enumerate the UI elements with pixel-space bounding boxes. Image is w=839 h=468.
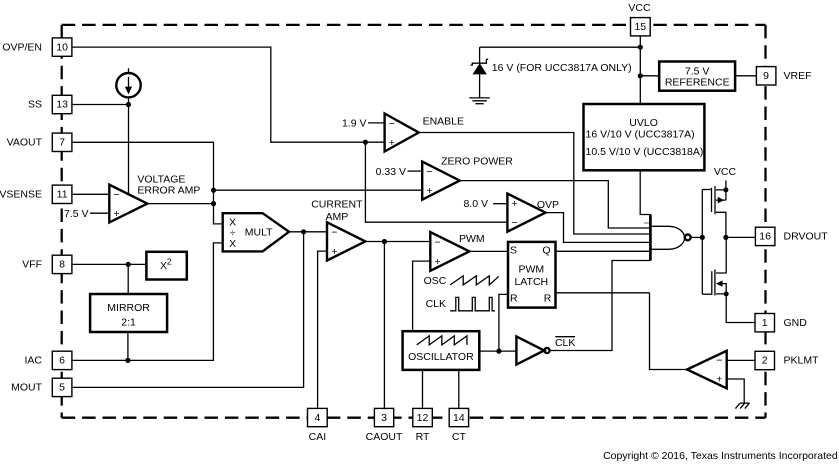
pin 11 VSENSE [0, 185, 72, 203]
svg-text:VCC: VCC [628, 2, 651, 14]
gate NAND driver logic [650, 215, 690, 261]
svg-text:÷: ÷ [230, 227, 236, 239]
wire 1.9V to ENABLE - input [368, 122, 385, 124]
svg-text:−: − [512, 217, 518, 229]
svg-text:+: + [716, 373, 722, 385]
current source I_SS [116, 68, 140, 97]
svg-text:−: − [426, 166, 432, 178]
svg-text:Copyright © 2016, Texas Instru: Copyright © 2016, Texas Instruments Inco… [603, 450, 838, 462]
svg-text:7: 7 [59, 137, 65, 149]
pin 15 VCC top [628, 2, 651, 36]
multiplier MULT [223, 213, 289, 251]
svg-text:DRVOUT: DRVOUT [784, 231, 829, 243]
svg-text:CURRENT: CURRENT [311, 199, 363, 211]
svg-text:R: R [510, 292, 518, 304]
svg-text:PKLMT: PKLMT [784, 355, 820, 367]
svg-text:5: 5 [59, 382, 65, 394]
pin 13 SS [28, 95, 72, 113]
wire error amp output [147, 203, 213, 205]
op-amp CURRENT AMP [311, 199, 365, 261]
junction VAOUT/error-amp output node [211, 201, 216, 206]
wire PKLMT output to latch R [650, 293, 688, 370]
svg-text:+: + [512, 198, 518, 210]
svg-text:CT: CT [452, 431, 467, 443]
buffer CLK inverter [516, 336, 549, 364]
wire oscillator clock output [479, 350, 516, 352]
junction MOUT node [301, 229, 306, 234]
wire SS pin13 [72, 104, 129, 106]
wire CAOUT to pin3 [383, 242, 385, 409]
wire reference to VREF pin9 [735, 75, 756, 77]
svg-text:9: 9 [763, 70, 769, 82]
chassis ground symbol [735, 403, 749, 409]
svg-text:IAC: IAC [24, 355, 42, 367]
svg-text:VFF: VFF [22, 259, 42, 271]
svg-text:16 V (FOR UCC3817A ONLY): 16 V (FOR UCC3817A ONLY) [492, 62, 632, 74]
block OSCILLATOR with ramp glyph [403, 331, 480, 370]
junction VCC/reference node [638, 73, 643, 78]
pin 3 CAOUT [366, 408, 403, 443]
wire oscillator ramp to PWM + input [413, 261, 431, 331]
wire source to GND pin1 [726, 294, 755, 323]
svg-text:RT: RT [416, 431, 430, 443]
svg-text:0.33 V: 0.33 V [376, 166, 406, 178]
wire RT pin12 to oscillator [422, 370, 424, 409]
svg-text:ENABLE: ENABLE [423, 116, 464, 128]
junction SS node [126, 102, 131, 107]
pin 9 VREF [756, 67, 811, 85]
svg-text:−: − [113, 189, 119, 201]
block MIRROR 2:1 [90, 294, 167, 332]
wire VCC pin15 rail [639, 36, 641, 104]
wire IAC pin6 to MULT X bottom input [72, 243, 223, 361]
svg-text:MOUT: MOUT [11, 382, 42, 394]
svg-text:11: 11 [57, 189, 68, 201]
svg-text:−: − [716, 354, 722, 366]
svg-text:CAOUT: CAOUT [366, 431, 403, 443]
svg-text:AMP: AMP [326, 211, 349, 223]
wire to MULT X top input [214, 204, 223, 224]
junction VFF node [126, 262, 131, 267]
junction IAC node [125, 358, 130, 363]
wire 0.33V to ZERO POWER - input [408, 170, 423, 172]
svg-text:−: − [435, 236, 441, 248]
wire ZERO POWER output to gate [460, 181, 651, 228]
wire NAND output to totem pole gates [691, 236, 703, 238]
comparator ZERO POWER [422, 155, 513, 199]
wire MOUT pin5 to multiplier output [72, 232, 304, 388]
svg-text:+: + [426, 185, 432, 197]
wire CLK-bar to gate bottom input [550, 261, 651, 351]
node junction on OVP/EN line [363, 140, 368, 145]
label CLK-bar [555, 337, 575, 350]
block UVLO [584, 104, 705, 170]
comparator ENABLE [385, 114, 464, 152]
block X squared [146, 252, 186, 280]
svg-text:VSENSE: VSENSE [0, 189, 42, 201]
svg-text:+: + [435, 256, 441, 268]
wire node to ZERO POWER + input [214, 189, 423, 191]
wire VSENSE pin11 to error amp - input [72, 193, 109, 195]
svg-text:16: 16 [759, 231, 771, 243]
svg-text:ZERO POWER: ZERO POWER [441, 155, 513, 167]
latch PWM LATCH [508, 242, 556, 308]
svg-text:X: X [229, 238, 236, 250]
wire VFF to MIRROR [127, 264, 129, 294]
svg-text:+: + [113, 208, 119, 220]
svg-text:2:1: 2:1 [121, 317, 136, 329]
svg-text:7.5 V: 7.5 V [64, 208, 89, 220]
comparator PWM [430, 232, 484, 271]
wire latch Q output to gate [556, 250, 651, 252]
svg-text:SS: SS [28, 99, 42, 111]
junction DRVOUT node [723, 235, 728, 240]
svg-text:12: 12 [417, 412, 429, 424]
comparator PKLMT peak limit [687, 351, 727, 389]
junction CAOUT node [382, 239, 387, 244]
svg-text:OSCILLATOR: OSCILLATOR [408, 351, 474, 363]
wire CLK to latch R left input [499, 294, 508, 351]
wire + input to ground [727, 379, 745, 403]
label OSC with ramp waveform [424, 275, 499, 287]
svg-text:4: 4 [314, 412, 320, 424]
wire VCC to 7.5V reference [640, 75, 659, 77]
wire MULT output to current amp - input [289, 231, 327, 233]
svg-text:1.9 V: 1.9 V [342, 118, 367, 130]
wire current amp output to PWM - input [365, 241, 430, 243]
wire DRVOUT to pin16 [726, 236, 756, 238]
pin 8 VFF [22, 255, 72, 273]
junction VCC/zener node [638, 45, 643, 50]
svg-text:OSC: OSC [424, 275, 447, 287]
svg-text:8.0 V: 8.0 V [463, 198, 488, 210]
svg-text:1: 1 [762, 317, 768, 329]
gray stub input to gate [644, 222, 650, 224]
wire SS to voltage error amp [128, 97, 130, 193]
svg-text:CLK: CLK [426, 298, 446, 310]
svg-text:REFERENCE: REFERENCE [665, 76, 730, 88]
ground symbol below zener [469, 98, 490, 104]
wire OVP output to gate [546, 213, 651, 243]
pin 14 CT [449, 408, 468, 443]
pin 4 CAI [308, 408, 328, 443]
svg-text:VREF: VREF [784, 70, 812, 82]
wire VAOUT pin7 [72, 142, 214, 203]
svg-text:−: − [331, 227, 337, 239]
pin 5 MOUT [11, 378, 72, 396]
svg-text:VCC: VCC [714, 166, 737, 178]
svg-text:CAI: CAI [309, 431, 327, 443]
wire gate bus [701, 190, 703, 295]
label CLK with clock waveform [426, 297, 495, 310]
svg-text:LATCH: LATCH [514, 276, 548, 288]
wire ENABLE output to gate [419, 133, 651, 235]
svg-text:Q: Q [542, 245, 550, 257]
svg-text:CLK: CLK [555, 337, 575, 349]
block 7.5 V REFERENCE [659, 62, 735, 91]
wire MIRROR to IAC [127, 332, 129, 360]
svg-text:15: 15 [634, 21, 646, 33]
svg-text:VAOUT: VAOUT [7, 137, 43, 149]
svg-text:+: + [331, 246, 337, 258]
svg-text:OVP/EN: OVP/EN [2, 41, 42, 53]
wire CT pin14 to oscillator [458, 370, 460, 409]
svg-text:MULT: MULT [245, 226, 273, 238]
svg-text:8: 8 [59, 259, 65, 271]
transistor upper MOSFET [702, 180, 728, 237]
wire latch R right input from peak limit comparator [556, 292, 650, 294]
IC boundary dashed border [62, 25, 766, 418]
pin 12 RT [413, 408, 433, 443]
svg-text:16 V/10 V (UCC3817A): 16 V/10 V (UCC3817A) [586, 129, 695, 141]
wire 8.0V to OVP + input [493, 203, 507, 205]
svg-text:R: R [544, 292, 552, 304]
pin 1 GND [755, 314, 807, 332]
wire OVP/EN pin10 to ENABLE + input [72, 47, 385, 142]
wire 7.5V to error amp + input [90, 212, 109, 214]
wire CAI pin4 to current amp + input [318, 251, 327, 408]
svg-text:ERROR AMP: ERROR AMP [137, 185, 200, 197]
svg-text:6: 6 [59, 355, 65, 367]
zener diode 16V clamp [471, 47, 489, 98]
pin 16 DRVOUT [755, 227, 828, 245]
svg-text:14: 14 [453, 412, 465, 424]
wire PWM output to latch S [469, 250, 508, 252]
wire UVLO to gate top input [640, 170, 651, 214]
pin 2 PKLMT [755, 351, 819, 369]
op-amp VOLTAGE ERROR AMP [109, 174, 200, 223]
svg-text:2: 2 [762, 355, 768, 367]
junction gate bus node [700, 235, 705, 240]
svg-text:10: 10 [56, 41, 68, 53]
junction CLK node [496, 349, 501, 354]
pin 10 OVP/EN [2, 38, 72, 56]
pin 7 VAOUT [7, 133, 72, 151]
svg-text:OVP: OVP [537, 199, 559, 211]
wire VFF pin8 [72, 263, 146, 265]
comparator OVP [507, 194, 559, 232]
svg-text:2: 2 [167, 257, 172, 267]
transistor lower MOSFET [702, 237, 728, 296]
pin 6 IAC [24, 351, 71, 369]
wire OVP/EN branch to OVP - input [365, 142, 507, 222]
svg-text:−: − [389, 118, 395, 130]
svg-text:PWM: PWM [459, 233, 485, 245]
svg-text:10.5 V/10 V (UCC3818A): 10.5 V/10 V (UCC3818A) [586, 146, 704, 158]
svg-text:S: S [510, 245, 517, 257]
svg-text:MIRROR: MIRROR [107, 302, 150, 314]
junction VAOUT/zero-power node [211, 188, 216, 193]
wire PKLMT pin2 to - input [727, 359, 755, 361]
svg-text:+: + [389, 137, 395, 149]
svg-text:13: 13 [56, 99, 68, 111]
svg-text:UVLO: UVLO [629, 117, 658, 129]
svg-text:3: 3 [381, 412, 387, 424]
svg-text:PWM: PWM [518, 264, 544, 276]
svg-text:GND: GND [784, 317, 808, 329]
wire VCC to zener clamp [480, 46, 641, 48]
